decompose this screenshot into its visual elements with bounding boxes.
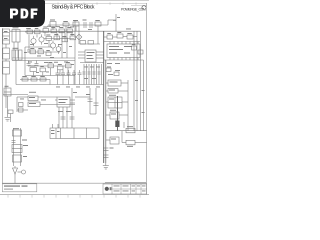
node A — [97, 26, 99, 31]
capacitor CB5 — [103, 155, 109, 158]
capacitor C2 — [61, 70, 65, 78]
line filter FL1 — [3, 48, 10, 59]
capacitor CB2 — [12, 140, 28, 143]
diode D7 — [110, 112, 119, 119]
capacitor CX8 — [70, 117, 75, 119]
wire — [90, 113, 96, 115]
wire — [44, 33, 46, 37]
wire — [59, 70, 61, 76]
resistor R30 — [19, 108, 24, 112]
transformer T1 — [12, 27, 20, 42]
wire — [96, 51, 104, 53]
wire — [40, 104, 75, 106]
wire — [70, 99, 75, 101]
diode D3 — [40, 66, 46, 72]
capacitor CX10 — [94, 88, 99, 114]
wire — [106, 82, 108, 84]
wire — [135, 142, 147, 144]
connector P1 — [3, 29, 10, 44]
ground — [103, 166, 109, 170]
wire — [48, 41, 50, 48]
wire — [100, 30, 141, 32]
wire — [13, 42, 15, 58]
value labels — [135, 80, 145, 113]
wire — [5, 44, 7, 48]
resistor R16 — [58, 64, 64, 70]
resistor R32 — [126, 140, 135, 145]
diode D8 — [110, 137, 119, 144]
wire — [96, 57, 104, 59]
resistor R25 — [132, 44, 137, 50]
resistor R6 — [67, 27, 73, 33]
wire — [75, 96, 90, 98]
wire — [80, 43, 100, 45]
wire — [66, 107, 68, 128]
resistor R17 — [66, 62, 72, 68]
wire — [79, 78, 81, 85]
wire — [25, 31, 72, 33]
capacitor CX4 — [27, 61, 31, 66]
wire — [97, 31, 99, 44]
wire — [64, 33, 66, 42]
resistor R19 — [88, 41, 94, 45]
wire — [20, 128, 22, 166]
wire — [103, 31, 105, 44]
wire — [7, 96, 9, 117]
resistor R24 — [106, 68, 111, 72]
wire — [104, 59, 144, 61]
svg-text:Stand-By & PFC Block: Stand-By & PFC Block — [52, 4, 95, 10]
wire — [36, 35, 38, 38]
diode DS1 — [76, 34, 82, 40]
wire — [44, 38, 74, 40]
wire — [113, 36, 118, 38]
wire — [67, 68, 69, 76]
title block — [103, 184, 147, 194]
capacitor C5 — [78, 70, 82, 78]
capacitor CB4 — [103, 148, 114, 151]
resistor R3 — [43, 27, 49, 33]
wire — [106, 90, 108, 92]
wire — [121, 82, 128, 84]
wire — [123, 122, 125, 128]
wire — [75, 26, 77, 31]
wire — [104, 36, 107, 38]
resistor R9 — [62, 36, 68, 42]
wire — [106, 101, 108, 103]
wire — [78, 51, 85, 53]
wire — [122, 101, 128, 103]
wire — [3, 94, 28, 96]
wire — [133, 36, 137, 38]
wire — [12, 57, 75, 59]
resistor R28 — [8, 110, 13, 114]
resistor R22 — [40, 76, 46, 81]
wire — [136, 31, 138, 131]
wire — [15, 61, 17, 85]
wire — [28, 51, 60, 53]
title text — [52, 4, 95, 10]
wire — [66, 31, 68, 58]
value labels — [111, 114, 116, 115]
wire — [70, 102, 75, 104]
value labels — [127, 126, 133, 127]
resistor R8 — [54, 34, 60, 40]
wire — [24, 47, 26, 76]
capacitor CX3 — [27, 47, 31, 52]
diode D2 — [35, 28, 41, 34]
logo POWERGE_COM — [121, 6, 146, 12]
resistor R31 — [126, 128, 135, 133]
capacitor CX6 — [82, 72, 100, 74]
wire — [143, 60, 145, 131]
wire — [106, 139, 110, 141]
resistor R11 — [30, 48, 36, 54]
PDF badge — [0, 0, 45, 27]
connector CN2 — [115, 121, 119, 128]
value labels — [20, 92, 46, 101]
wire — [56, 33, 58, 40]
wire — [10, 114, 12, 123]
resistor R7 — [46, 35, 52, 41]
capacitor CX9 — [86, 88, 93, 114]
wire — [16, 84, 104, 86]
wire — [57, 78, 59, 85]
value labels — [24, 43, 72, 58]
wire — [133, 31, 135, 131]
value labels — [111, 139, 116, 140]
wire — [48, 24, 108, 26]
wire — [96, 54, 104, 56]
resistor R23 — [127, 33, 133, 39]
wire — [123, 36, 127, 38]
transformer T2 — [108, 97, 122, 108]
resistor RV1 — [4, 86, 11, 96]
resistor R4 — [51, 27, 57, 33]
capacitor C3 — [67, 70, 71, 78]
capacitor CX2 — [90, 22, 92, 28]
capacitor C1 — [56, 70, 60, 78]
wire — [122, 131, 126, 143]
wire — [78, 26, 80, 44]
resistor R1 — [63, 21, 69, 26]
value labels — [56, 86, 100, 89]
wire — [25, 46, 52, 48]
diode D6 — [114, 72, 119, 76]
resistor R15 — [48, 62, 54, 68]
wire — [106, 114, 110, 116]
value labels — [107, 63, 120, 75]
wire — [65, 26, 67, 31]
wire — [16, 97, 18, 112]
wire — [55, 99, 57, 101]
capacitor CB3 — [13, 155, 28, 162]
capacitor CX5 — [35, 61, 39, 66]
wire — [117, 96, 119, 131]
wire — [28, 35, 30, 48]
wire — [108, 14, 116, 31]
capacitor CX1 — [83, 20, 87, 29]
wire — [12, 60, 75, 62]
wire — [28, 65, 70, 67]
inductor L1 — [73, 20, 79, 26]
wire — [73, 78, 75, 85]
wire — [62, 107, 64, 128]
wire — [127, 80, 129, 131]
pfc controller U2 — [107, 42, 140, 61]
wire — [105, 60, 107, 163]
value labels — [109, 95, 116, 111]
ground — [5, 118, 11, 122]
wire — [119, 114, 128, 116]
legend table — [2, 184, 37, 192]
value labels — [109, 90, 115, 91]
wire — [118, 90, 128, 92]
resistor R20 — [22, 76, 28, 81]
resistor R18 — [80, 41, 86, 45]
relay K1 — [108, 80, 121, 86]
resistor R29 — [19, 103, 24, 107]
resistor R10 — [70, 34, 76, 40]
wire — [62, 78, 64, 85]
resistor R27 — [108, 89, 118, 94]
wire — [68, 78, 70, 85]
wire — [78, 54, 85, 56]
wire — [74, 20, 76, 85]
line filter FL2 — [3, 61, 10, 74]
wire — [5, 74, 7, 108]
capacitor CB1 — [13, 128, 22, 136]
wire — [17, 96, 28, 98]
wire — [80, 62, 104, 64]
thermistor RT1 — [13, 166, 18, 180]
wire — [106, 130, 147, 132]
transistor QB1 — [18, 170, 26, 174]
wire — [103, 31, 105, 163]
wire — [71, 33, 73, 36]
transformer T3 — [12, 145, 28, 153]
wire — [17, 42, 19, 58]
value labels — [117, 17, 131, 29]
resistor R26 — [138, 50, 143, 54]
diode D1 — [27, 28, 33, 34]
op-amp U1 — [85, 50, 96, 62]
wire — [50, 68, 52, 76]
diode D4 — [107, 33, 113, 39]
resistor R12 — [38, 48, 44, 54]
wire — [104, 41, 140, 43]
transistor Q2 — [39, 34, 44, 44]
wire — [140, 31, 142, 131]
transistor Q4 — [56, 44, 61, 54]
resistor R21 — [31, 76, 37, 81]
title block note — [105, 181, 146, 184]
wire — [25, 75, 75, 77]
resistor R5 — [59, 27, 65, 33]
wire — [38, 96, 57, 98]
resistor R13 — [46, 50, 51, 56]
resistor R14 — [30, 66, 37, 72]
regulator U4 — [28, 102, 40, 107]
wire — [17, 109, 28, 111]
wire — [105, 163, 107, 166]
wire — [52, 27, 54, 31]
capacitor C4 — [72, 70, 76, 78]
wire — [58, 107, 60, 128]
wire — [49, 80, 51, 85]
value labels — [28, 62, 74, 73]
wire — [33, 72, 35, 76]
value labels — [127, 146, 133, 147]
fuse F1 — [50, 20, 56, 27]
diode D5 — [117, 32, 123, 38]
pin comb U1 — [84, 64, 102, 85]
op-amp U5 — [57, 97, 70, 107]
wire — [71, 88, 73, 128]
wire — [14, 180, 16, 183]
wire — [61, 31, 63, 58]
resistor R2 — [95, 20, 101, 26]
wire — [10, 30, 100, 32]
value labels — [84, 67, 100, 79]
wire — [13, 128, 15, 166]
optocoupler U3 — [28, 96, 38, 101]
value labels — [26, 26, 92, 30]
wire — [20, 79, 50, 81]
wire — [5, 59, 7, 61]
transistor Q1 — [31, 36, 36, 46]
capacitor CX7 — [61, 117, 66, 119]
connector CN1 — [50, 124, 99, 139]
transistor Q3 — [50, 40, 55, 50]
wire — [42, 72, 44, 76]
wire — [78, 57, 85, 59]
inductor L2 — [12, 48, 22, 60]
value labels — [58, 92, 77, 112]
